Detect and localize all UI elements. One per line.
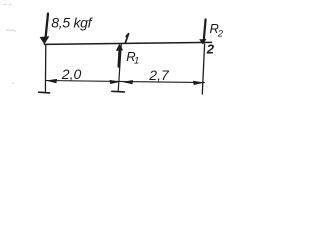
left extension line [44, 45, 46, 93]
svg-text:2: 2 [206, 42, 215, 57]
svg-text:1: 1 [134, 56, 139, 67]
svg-text:2,7: 2,7 [148, 67, 170, 83]
bottom tick left [39, 91, 50, 94]
dim arrowhead mid-left [110, 80, 121, 84]
reaction R1 arrow head [116, 44, 123, 51]
svg-text:2: 2 [217, 29, 224, 40]
beam [45, 42, 212, 44]
dimension line [46, 81, 205, 83]
faint dot [13, 82, 15, 84]
dim arrowhead right [193, 81, 204, 85]
svg-text:8,5 kgf: 8,5 kgf [51, 14, 93, 30]
dim arrowhead mid-right [122, 80, 133, 84]
faint squiggle [6, 30, 16, 32]
reaction R2 arrow head [199, 39, 206, 45]
node 1 stroke [125, 34, 128, 44]
force arrow 8,5 kgf head [40, 36, 50, 44]
reaction R1 arrow shaft [119, 50, 120, 67]
svg-text:2,0: 2,0 [61, 66, 82, 82]
reaction R1 extension line [118, 44, 121, 91]
right extension line below beam [202, 44, 204, 94]
force arrow 8,5 kgf shaft [46, 14, 48, 37]
dim arrowhead left [46, 79, 57, 83]
faint corner mark [3, 3, 12, 5]
bottom tick middle [112, 90, 125, 93]
reaction R2 arrow shaft [204, 20, 206, 39]
